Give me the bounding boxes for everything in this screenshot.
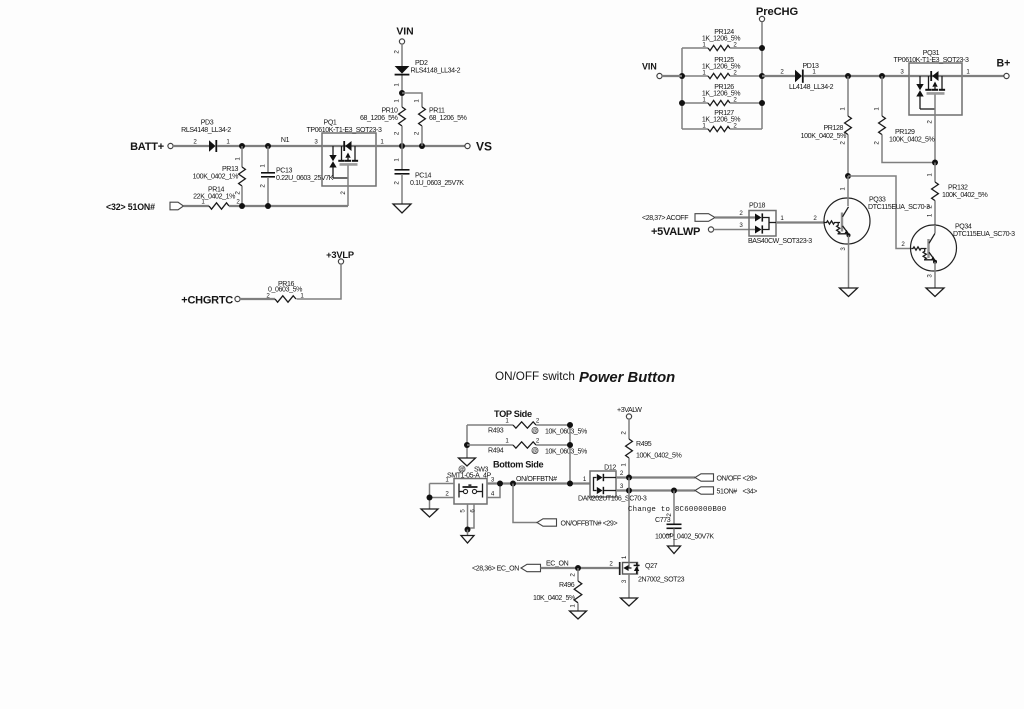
- left bus R493/R494: [466, 425, 468, 458]
- resistor R494: [467, 444, 513, 446]
- svg-text:1: 1: [570, 604, 577, 608]
- PD18 common cathode: [762, 218, 769, 230]
- svg-text:1: 1: [505, 438, 509, 445]
- svg-text:100K_0402_1%: 100K_0402_1%: [193, 174, 239, 181]
- ground left bus: [459, 458, 476, 466]
- svg-text:2: 2: [394, 131, 401, 135]
- svg-text:2: 2: [340, 191, 347, 195]
- wire +3VLP down: [297, 264, 342, 299]
- svg-text:RLS4148_LL34-2: RLS4148_LL34-2: [181, 127, 231, 134]
- svg-text:22K_0402_1%: 22K_0402_1%: [193, 194, 236, 201]
- resistor PR126: [682, 102, 708, 104]
- ground left of SW3: [421, 509, 438, 517]
- PQ33 emitter lead: [848, 235, 850, 288]
- svg-text:2: 2: [901, 241, 905, 248]
- svg-text:2: 2: [840, 141, 847, 145]
- terminal +5VALWP: [708, 227, 713, 232]
- wire PD3 to PQ1 (net N1): [217, 145, 322, 147]
- svg-text:4: 4: [491, 491, 495, 498]
- svg-text:Power Button: Power Button: [579, 370, 675, 386]
- svg-text:ON/OFF: ON/OFF: [717, 476, 742, 483]
- svg-text:2: 2: [414, 131, 421, 135]
- svg-text:Bottom Side: Bottom Side: [493, 460, 543, 470]
- resistor PR127: [682, 128, 708, 130]
- svg-text:PR132: PR132: [948, 185, 968, 192]
- wire EC_ON to Q27 gate: [541, 567, 620, 569]
- svg-text:1: 1: [260, 164, 267, 168]
- svg-text:VS: VS: [476, 140, 492, 154]
- junction gate node: [932, 160, 938, 166]
- port tag ON/OFFBTN#: [537, 519, 557, 526]
- wire PD13 to PQ31: [804, 75, 910, 77]
- wire pin1 down to ground: [429, 484, 431, 510]
- wire PR129 to gate node: [882, 135, 935, 163]
- resistor PR14: [209, 203, 229, 209]
- left bus of resistor bank: [681, 48, 683, 129]
- wire R495 node to 51ON# node: [628, 478, 630, 491]
- junction at PR13 top: [239, 143, 245, 149]
- svg-text:1K_1206_5%: 1K_1206_5%: [702, 63, 741, 70]
- transistor PQ31 box: [909, 63, 962, 115]
- junction at PC13 top: [265, 143, 271, 149]
- svg-text:LL4148_LL34-2: LL4148_LL34-2: [789, 84, 834, 91]
- wire PD2 to PR10: [401, 76, 403, 108]
- svg-text:2: 2: [609, 561, 613, 568]
- wire VIN to bank: [662, 75, 682, 77]
- svg-text:PD18: PD18: [749, 203, 766, 210]
- junction PR128 top: [845, 73, 851, 79]
- svg-text:<28,37> ACOFF: <28,37> ACOFF: [642, 215, 689, 222]
- resistor PR125: [682, 75, 708, 77]
- capacitor PC13: [267, 146, 269, 173]
- svg-text:1: 1: [583, 476, 587, 483]
- ground under PQ34: [926, 288, 944, 297]
- svg-text:3: 3: [739, 222, 743, 229]
- svg-text:2N7002_SOT23: 2N7002_SOT23: [638, 577, 685, 584]
- R493 circled marker: [532, 427, 538, 433]
- svg-text:1: 1: [394, 158, 401, 162]
- svg-text:1: 1: [874, 107, 881, 111]
- terminal +3VALW: [626, 414, 631, 419]
- PQ1 gate lead to 51ON#: [347, 166, 349, 207]
- transistor PQ1 box: [322, 133, 376, 186]
- svg-text:3: 3: [621, 579, 628, 583]
- port tag 51ON# input: [170, 202, 184, 210]
- junction R495/ON_OFF: [626, 475, 632, 481]
- svg-text:1: 1: [966, 69, 970, 76]
- Q27 source lead: [628, 574, 630, 598]
- svg-text:1: 1: [780, 215, 784, 222]
- wire PQ31 to B+: [962, 75, 1004, 77]
- wire tag to PR14: [184, 205, 210, 207]
- capacitor PC14: [401, 146, 403, 170]
- svg-text:PR11: PR11: [429, 108, 445, 115]
- svg-text:PC14: PC14: [415, 173, 432, 180]
- svg-text:1: 1: [235, 157, 242, 161]
- terminal PreCHG: [759, 16, 764, 21]
- svg-text:<28>: <28>: [743, 476, 758, 483]
- svg-text:RLS4148_LL34-2: RLS4148_LL34-2: [411, 68, 461, 75]
- svg-text:+5VALWP: +5VALWP: [651, 226, 700, 238]
- svg-text:+CHGRTC: +CHGRTC: [181, 295, 233, 307]
- svg-text:68_1206_5%: 68_1206_5%: [429, 115, 468, 122]
- svg-text:R493: R493: [488, 428, 504, 435]
- junction left bus VIN: [679, 73, 685, 79]
- resistor PR128: [847, 76, 849, 116]
- svg-text:<28,36> EC_ON: <28,36> EC_ON: [472, 566, 519, 573]
- svg-text:1000P_0402_50V7K: 1000P_0402_50V7K: [655, 534, 714, 541]
- SW3 circled marker: [459, 466, 465, 472]
- terminal VS: [465, 143, 470, 148]
- D12 diode bottom: [597, 487, 603, 494]
- resistor PR13: [241, 146, 243, 167]
- terminal +3VLP: [338, 259, 343, 264]
- svg-text:PD13: PD13: [803, 63, 820, 70]
- SECTION3: [421, 370, 757, 619]
- svg-text:R494: R494: [488, 448, 504, 455]
- svg-text:@: @: [532, 429, 537, 435]
- svg-text:2: 2: [570, 573, 577, 577]
- svg-text:@: @: [532, 449, 537, 455]
- junction PreCHG/PR124: [759, 45, 765, 51]
- junction left bus R494: [464, 442, 470, 448]
- ground under PC14: [393, 204, 411, 213]
- svg-text:R495: R495: [636, 441, 652, 448]
- ground under C773: [668, 546, 681, 554]
- pins 5 6 of SW3: [467, 504, 469, 530]
- diode pack PD18 box: [749, 211, 776, 237]
- ground under PQ33: [840, 288, 858, 297]
- PQ31 gate lead down: [934, 95, 936, 163]
- terminal B+: [1004, 73, 1009, 78]
- resistor PR16: [275, 296, 296, 302]
- wire through PQ31: [909, 75, 962, 77]
- svg-text:10K_0603_5%: 10K_0603_5%: [545, 429, 588, 436]
- svg-text:TP0610K-T1-E3_SOT23-3: TP0610K-T1-E3_SOT23-3: [306, 127, 382, 134]
- diode pack D12 box: [590, 471, 616, 497]
- right bus to ON/OFFBTN# rail: [569, 425, 571, 484]
- junction right bus PR126: [759, 100, 765, 106]
- transistor Q27: [619, 562, 621, 575]
- junction C773: [671, 488, 677, 494]
- svg-text:PD2: PD2: [415, 60, 428, 67]
- svg-text:0.22U_0603_25V7K: 0.22U_0603_25V7K: [276, 175, 334, 182]
- wire branch to ON/OFFBTN# tag: [513, 484, 537, 523]
- svg-text:100K_0402_5%: 100K_0402_5%: [636, 453, 682, 460]
- resistor R495: [626, 439, 633, 458]
- resistor PR124: [682, 47, 708, 49]
- wire to PQ34 base: [848, 176, 912, 249]
- svg-text:PQ34: PQ34: [955, 224, 972, 231]
- wire +CHGRTC to PR16: [240, 298, 275, 300]
- SW3 contacts: [463, 489, 467, 493]
- svg-text:0.1U_0603_25V7K: 0.1U_0603_25V7K: [410, 180, 464, 187]
- svg-text:1: 1: [621, 555, 628, 559]
- switch SW3 box: [454, 479, 487, 505]
- wire bank to PD13: [762, 75, 795, 77]
- terminal VIN: [399, 39, 404, 44]
- SW3 inner pads: [458, 484, 460, 498]
- wire ACOFF to PD18: [715, 216, 755, 218]
- svg-text:EC_ON: EC_ON: [546, 561, 569, 568]
- svg-text:DTC115EUA_SC70-3: DTC115EUA_SC70-3: [953, 231, 1015, 238]
- svg-text:1: 1: [927, 173, 934, 177]
- wire branch to PR11: [402, 93, 422, 107]
- PQ1 body diode: [345, 141, 351, 151]
- SW3 button bar: [463, 486, 478, 488]
- junction right bus: [567, 481, 573, 487]
- svg-text:<34>: <34>: [743, 489, 758, 496]
- junction PR128 bottom: [845, 173, 851, 179]
- wire PD18 to PQ33: [776, 221, 824, 223]
- svg-text:2: 2: [536, 438, 540, 445]
- ground under SW3: [461, 536, 474, 544]
- junction Q27 drain: [626, 488, 632, 494]
- svg-text:1K_1206_5%: 1K_1206_5%: [702, 35, 741, 42]
- D12 input splitter: [594, 478, 597, 491]
- svg-text:3: 3: [314, 139, 318, 146]
- junction right bus R493: [567, 422, 573, 428]
- wire +3VALW to R495: [628, 419, 630, 439]
- R494 circled marker: [532, 447, 538, 453]
- svg-text:2: 2: [536, 418, 540, 425]
- svg-text:2: 2: [235, 191, 242, 195]
- junction left bus PR126: [679, 100, 685, 106]
- PQ34 emitter lead: [934, 262, 936, 288]
- svg-text:3: 3: [620, 483, 624, 490]
- port tag ON/OFF: [695, 474, 714, 481]
- svg-text:BATT+: BATT+: [130, 141, 164, 153]
- PQ1 mosfet channel: [341, 146, 343, 160]
- svg-text:PR128: PR128: [823, 125, 843, 132]
- svg-text:2: 2: [394, 181, 401, 185]
- svg-text:5: 5: [460, 509, 467, 513]
- diode PD3: [209, 140, 216, 152]
- svg-text:PR129: PR129: [895, 129, 915, 136]
- svg-text:2: 2: [621, 431, 628, 435]
- wire 51ON# rail: [229, 205, 348, 207]
- svg-text:PQ31: PQ31: [923, 50, 940, 57]
- ground under Q27: [621, 598, 638, 606]
- capacitor C773: [673, 491, 675, 525]
- svg-text:DTC115EUA_SC70-3: DTC115EUA_SC70-3: [868, 204, 930, 211]
- svg-text:1: 1: [840, 107, 847, 111]
- svg-text:N1: N1: [281, 137, 290, 144]
- svg-text:1: 1: [394, 99, 401, 103]
- wire PR11 to rail: [421, 126, 423, 146]
- D12 diode top: [597, 474, 603, 481]
- resistor R493: [467, 424, 513, 426]
- svg-text:1: 1: [414, 99, 421, 103]
- svg-text:VIN: VIN: [642, 62, 657, 72]
- svg-text:68_1206_5%: 68_1206_5%: [360, 115, 399, 122]
- PQ31 gate bar: [927, 92, 945, 95]
- terminal +CHGRTC: [235, 296, 240, 301]
- junction tag branch: [510, 481, 516, 487]
- diode PD2: [395, 66, 410, 74]
- svg-text:TP0610K-T1-E3_SOT23-3: TP0610K-T1-E3_SOT23-3: [893, 57, 969, 64]
- svg-text:Change to 8C600000B00: Change to 8C600000B00: [628, 506, 726, 514]
- svg-text:PR10: PR10: [381, 108, 398, 115]
- right bus of resistor bank: [761, 48, 763, 129]
- svg-text:PQ33: PQ33: [869, 197, 886, 204]
- junction right bus R494: [567, 442, 573, 448]
- PQ31 body diode: [932, 71, 938, 81]
- svg-text:1: 1: [380, 139, 384, 146]
- svg-text:TOP Side: TOP Side: [494, 409, 532, 419]
- wire PreCHG down: [761, 22, 763, 49]
- wire +5VALWP to PD18: [714, 229, 756, 231]
- svg-text:D12: D12: [604, 465, 616, 472]
- svg-text:2: 2: [927, 120, 934, 124]
- junction PR11 bottom: [419, 143, 425, 149]
- svg-text:VIN: VIN: [396, 27, 413, 38]
- svg-text:ON/OFF switch: ON/OFF switch: [495, 370, 575, 383]
- svg-text:10K_0402_5%: 10K_0402_5%: [533, 595, 576, 602]
- port tag 51ON#: [695, 487, 714, 494]
- svg-text:2: 2: [260, 184, 267, 188]
- svg-text:PR13: PR13: [222, 166, 239, 173]
- D12 outputs: [603, 477, 616, 479]
- PD18 diode top: [755, 214, 762, 222]
- svg-text:3: 3: [840, 247, 847, 251]
- wire through PQ1: [322, 145, 376, 147]
- svg-text:R496: R496: [559, 582, 575, 589]
- PD18 diode bottom: [755, 226, 762, 234]
- junction PR13 bottom: [239, 203, 245, 209]
- svg-text:2: 2: [813, 215, 817, 222]
- junction right bus rail: [759, 73, 765, 79]
- svg-text:ON/OFFBTN#: ON/OFFBTN#: [516, 476, 557, 483]
- svg-text:2: 2: [193, 139, 197, 146]
- port tag ACOFF: [695, 214, 715, 222]
- svg-text:<32> 51ON#: <32> 51ON#: [106, 202, 155, 212]
- diode PD13: [795, 70, 802, 83]
- svg-text:3: 3: [927, 274, 934, 278]
- wire ON/OFF row: [616, 476, 695, 478]
- svg-text:1: 1: [621, 463, 628, 467]
- svg-text:6: 6: [470, 509, 477, 513]
- svg-text:2: 2: [739, 210, 743, 217]
- svg-text:2: 2: [394, 50, 401, 54]
- svg-text:PC13: PC13: [276, 168, 293, 175]
- PQ1 zener: [332, 146, 334, 155]
- junction pins 5/6: [465, 527, 471, 533]
- svg-text:2: 2: [874, 141, 881, 145]
- svg-text:PQ1: PQ1: [324, 120, 337, 127]
- svg-text:100K_0402_5%: 100K_0402_5%: [801, 133, 847, 140]
- svg-text:1: 1: [394, 83, 401, 87]
- wire VIN to PD2: [401, 44, 403, 66]
- terminal VIN: [657, 73, 662, 78]
- wire PQ1 to VS: [376, 145, 465, 147]
- PQ1 gate bar: [340, 163, 358, 166]
- svg-text:DAN202UT106_SC70-3: DAN202UT106_SC70-3: [578, 496, 647, 503]
- svg-text:100K_0402_5%: 100K_0402_5%: [942, 192, 988, 199]
- svg-text:10K_0603_5%: 10K_0603_5%: [545, 449, 588, 456]
- junction PD2 out: [399, 90, 405, 96]
- junction pin4: [497, 481, 503, 487]
- ground under R496: [570, 611, 587, 619]
- svg-text:0_0603_5%: 0_0603_5%: [268, 287, 303, 294]
- svg-text:PD3: PD3: [201, 120, 214, 127]
- svg-text:100K_0402_5%: 100K_0402_5%: [889, 137, 935, 144]
- port tag EC_ON: [521, 564, 541, 571]
- svg-text:C773: C773: [655, 517, 671, 524]
- svg-text:1: 1: [927, 213, 934, 217]
- resistor PR11: [419, 107, 426, 126]
- wire 51ON# row: [616, 489, 695, 491]
- svg-text:1K_1206_5%: 1K_1206_5%: [702, 116, 741, 123]
- PQ31 mosfet channel: [928, 76, 930, 89]
- svg-text:ON/OFFBTN# <29>: ON/OFFBTN# <29>: [561, 521, 618, 528]
- svg-text:1K_1206_5%: 1K_1206_5%: [702, 90, 741, 97]
- wire down to Q27 drain: [628, 491, 630, 563]
- resistor R496: [577, 568, 579, 581]
- svg-text:2: 2: [445, 491, 449, 498]
- svg-text:1: 1: [226, 139, 230, 146]
- junction PC13 bottom: [265, 203, 271, 209]
- resistor PR10: [399, 107, 406, 126]
- junction PR129 top: [879, 73, 885, 79]
- SECTION2: [642, 6, 1015, 297]
- svg-text:PR14: PR14: [208, 187, 225, 194]
- transistor PQ34: [911, 225, 957, 271]
- wire ON/OFFBTN# rail: [487, 482, 590, 484]
- wire BATT+ to PD3: [173, 145, 209, 147]
- svg-text:3: 3: [900, 69, 904, 76]
- svg-text:2: 2: [620, 470, 624, 477]
- svg-text:1: 1: [840, 187, 847, 191]
- SECTION1: [181, 250, 354, 307]
- svg-text:+3VALW: +3VALW: [617, 407, 642, 414]
- wire PR10 to rail: [401, 126, 403, 146]
- junction R496: [575, 565, 581, 571]
- junction PR10 bottom: [399, 143, 405, 149]
- resistor PR129: [881, 76, 883, 116]
- terminal BATT+: [168, 143, 173, 148]
- transistor PQ33: [824, 198, 870, 244]
- svg-text:B+: B+: [997, 58, 1011, 70]
- PQ31 zener: [919, 76, 921, 84]
- svg-text:Q27: Q27: [645, 563, 658, 570]
- svg-text:BAS40CW_SOT323-3: BAS40CW_SOT323-3: [748, 238, 812, 245]
- svg-text:2: 2: [780, 69, 784, 76]
- svg-text:51ON#: 51ON#: [717, 489, 738, 496]
- junction pin2: [427, 495, 433, 501]
